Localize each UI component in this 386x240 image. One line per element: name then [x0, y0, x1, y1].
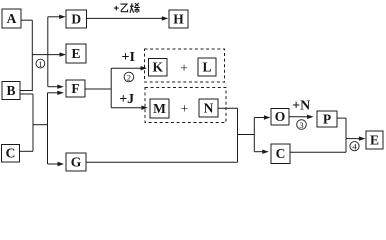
circled 2 — [124, 72, 134, 82]
svg-text:P: P — [323, 112, 331, 127]
wire bus3 — [237, 108, 239, 162]
wire branch to F upper — [48, 86, 58, 88]
box B — [2, 82, 20, 100]
wire G exit — [86, 161, 238, 163]
svg-text:+N: +N — [292, 99, 310, 114]
wire F exit — [85, 88, 111, 90]
wire D to H — [87, 17, 163, 19]
wire O to P — [289, 116, 308, 118]
wire C stub — [20, 150, 34, 152]
wire arrow line to M box group — [111, 107, 141, 109]
wire bus2 upper — [47, 17, 49, 87]
wire bus5 — [345, 118, 347, 152]
box L — [198, 58, 216, 76]
wire branch to C2 — [254, 151, 263, 153]
svg-text:K: K — [152, 60, 163, 75]
wire arrow line to K box group — [111, 67, 141, 69]
label +乙烯 (plus ethylene) drawn as paths — [114, 3, 140, 13]
svg-text:E: E — [71, 46, 80, 61]
svg-text:C: C — [276, 146, 286, 161]
wire connector2 — [33, 124, 48, 126]
svg-text:O: O — [275, 109, 286, 124]
arrowhead to P — [307, 115, 314, 119]
wire F split vertical — [110, 68, 112, 108]
svg-text:L: L — [202, 60, 211, 75]
dashed box M+N — [145, 88, 226, 123]
wire branch to F lower — [48, 92, 59, 94]
arrowhead to D — [59, 15, 65, 19]
svg-text:G: G — [71, 155, 82, 170]
svg-text:A: A — [7, 11, 17, 26]
box G — [66, 153, 86, 171]
wire A stub — [21, 19, 33, 21]
wire branch to G — [48, 163, 59, 165]
wire B stub upper — [20, 90, 33, 92]
box E — [66, 44, 86, 63]
arrowhead to F upper — [57, 85, 64, 89]
box N — [199, 99, 218, 117]
wire branch to O — [254, 117, 264, 119]
svg-text:N: N — [204, 101, 214, 116]
wire C2 exit — [290, 151, 346, 153]
wire B stub lower — [20, 93, 33, 95]
svg-text:+I: +I — [121, 50, 134, 65]
arrowhead to M group — [141, 106, 148, 110]
arrowhead to C2 — [262, 150, 269, 154]
svg-text:1: 1 — [38, 59, 42, 69]
svg-text:H: H — [173, 12, 184, 27]
box C2 — [271, 144, 290, 164]
svg-text:B: B — [6, 83, 15, 98]
box D — [66, 10, 87, 28]
wire bus1 lower (B,C join) — [32, 94, 34, 151]
svg-text:+: + — [181, 101, 189, 116]
box H — [169, 10, 188, 28]
box C — [2, 145, 20, 163]
wire bus1 upper (A,B join) — [31, 20, 33, 90]
arrowhead to H — [162, 16, 169, 20]
svg-text:C: C — [6, 146, 16, 161]
box K — [149, 59, 168, 77]
box P — [317, 111, 337, 127]
box O — [271, 109, 289, 126]
svg-text:2: 2 — [127, 72, 131, 82]
circled 4 — [350, 142, 359, 152]
svg-text:+J: +J — [119, 92, 134, 107]
arrowhead to O — [264, 115, 271, 119]
dashed box K+L — [145, 49, 225, 82]
svg-text:F: F — [71, 81, 79, 96]
arrowhead to K group — [141, 66, 148, 70]
wire bus2 lower — [47, 93, 49, 164]
svg-text:D: D — [71, 12, 81, 27]
svg-text:M: M — [153, 101, 166, 116]
circled 3 — [297, 120, 307, 130]
wire branch to E2 — [346, 138, 360, 140]
wire N exit — [218, 107, 238, 109]
arrowhead to E — [60, 52, 67, 56]
wire connector to E — [32, 54, 60, 56]
wire P exit — [337, 117, 346, 119]
wire branch to D — [48, 16, 60, 18]
circled 1 — [36, 59, 45, 69]
arrowhead to F lower — [57, 91, 64, 95]
wire connector3 — [238, 134, 255, 136]
svg-text:3: 3 — [299, 120, 303, 130]
box F — [66, 80, 85, 97]
wire bus4 — [253, 118, 255, 152]
box A — [2, 9, 21, 28]
arrowhead to G — [58, 162, 65, 166]
svg-text:+: + — [180, 60, 188, 75]
box M — [150, 99, 169, 118]
box E2 — [366, 131, 383, 149]
svg-text:E: E — [370, 133, 379, 148]
arrowhead to E2 — [359, 136, 366, 140]
